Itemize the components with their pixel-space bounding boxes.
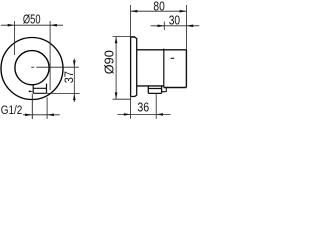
dimension line 80	[131, 10, 187, 12]
arrow 30 right	[186, 25, 193, 28]
dimension line 36	[118, 113, 171, 115]
svg-text:Ø90: Ø90	[101, 50, 116, 74]
dimension line 30	[151, 25, 200, 27]
vertical centerline below outlet	[31, 94, 33, 119]
svg-text:37: 37	[64, 71, 76, 83]
svg-text:Ø50: Ø50	[23, 13, 41, 27]
arrow G1/2 right	[47, 114, 54, 117]
svg-text:30: 30	[169, 15, 180, 28]
grip bottom edge	[164, 87, 187, 89]
arrow D50 right	[50, 24, 57, 27]
svg-text:80: 80	[153, 0, 164, 13]
arrow G1/2 left	[25, 114, 32, 117]
extension line 80/36 left wall	[130, 5, 132, 37]
escutcheon front view outer circle	[1, 38, 63, 100]
dimension line D90 vertical	[115, 37, 117, 100]
arrow D90 top	[115, 37, 118, 44]
arrow D90 bottom	[115, 92, 118, 99]
dimension line G1/2	[23, 114, 60, 116]
arrow 80 left	[131, 10, 138, 13]
arrow 37 bottom	[73, 93, 76, 100]
dimension line D50	[1, 24, 63, 26]
arrow 36 left	[124, 113, 131, 116]
leader arrow at outlet	[29, 90, 34, 92]
dimension line 37 vertical	[73, 59, 75, 103]
extension tick 30 left	[163, 22, 165, 31]
outlet side view	[148, 86, 161, 94]
outlet stub front view	[33, 84, 46, 94]
svg-text:36: 36	[137, 101, 149, 115]
extension line 80/30 right	[185, 5, 187, 50]
svg-text:G1/2: G1/2	[1, 104, 23, 117]
extension line D50 left	[14, 21, 16, 55]
extension line 37 bottom	[47, 92, 80, 94]
grip marking dash	[171, 57, 175, 59]
step under grip	[162, 88, 167, 92]
arrow D50 left	[8, 24, 15, 27]
body top edge	[137, 49, 187, 51]
valve grip front view inner circle	[15, 51, 49, 85]
arrow 30 left	[158, 25, 165, 28]
flange side view	[131, 37, 137, 96]
extension line D90 bottom	[113, 98, 132, 100]
body bottom edge	[137, 85, 164, 87]
extension line G1/2 right	[46, 97, 48, 119]
extension line D90 top	[113, 36, 135, 38]
grip front face	[185, 50, 187, 88]
grip joint	[163, 49, 165, 88]
arrow 37 top	[73, 60, 76, 67]
arrow 80 right	[180, 10, 187, 13]
extension line 36 right	[155, 93, 157, 118]
horizontal centerline	[31, 66, 79, 68]
extension line D50 right	[49, 21, 51, 90]
arrow 36 right	[156, 113, 163, 116]
